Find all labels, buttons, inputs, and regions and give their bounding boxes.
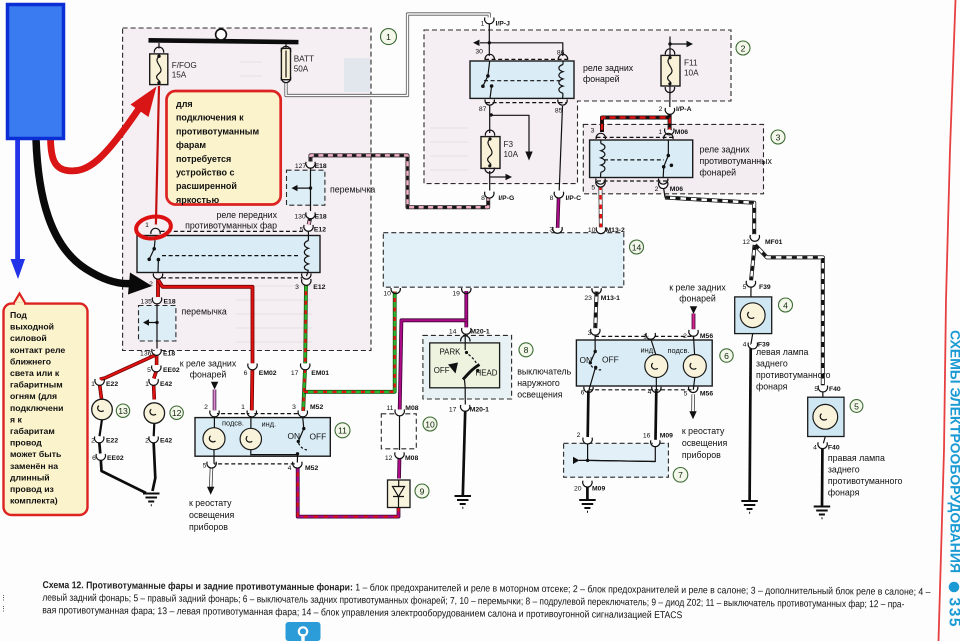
svg-text:2: 2 — [655, 186, 659, 193]
svg-text:контакт реле: контакт реле — [10, 345, 65, 355]
svg-text:фонарей: фонарей — [583, 74, 620, 84]
svg-text:M06: M06 — [670, 186, 683, 193]
svg-text:F39: F39 — [759, 284, 771, 291]
svg-text:10: 10 — [383, 291, 391, 298]
svg-text:5: 5 — [203, 463, 207, 470]
svg-text:EE02: EE02 — [107, 455, 124, 462]
svg-text:5: 5 — [743, 284, 747, 291]
svg-text:30: 30 — [475, 49, 483, 56]
svg-text:может быть: может быть — [10, 449, 61, 459]
svg-text:MF01: MF01 — [765, 239, 783, 246]
svg-text:длинный: длинный — [10, 472, 50, 482]
svg-text:M08: M08 — [405, 455, 418, 462]
svg-text:ближнего: ближнего — [10, 356, 51, 366]
svg-text:M52: M52 — [305, 465, 318, 472]
svg-text:яркостью: яркостью — [176, 195, 219, 205]
svg-text:11: 11 — [386, 405, 393, 412]
svg-text:EE02: EE02 — [163, 367, 180, 374]
svg-text:1: 1 — [241, 404, 245, 411]
svg-text:M56: M56 — [700, 333, 713, 340]
svg-text:EM01: EM01 — [311, 370, 329, 377]
svg-text:E12: E12 — [313, 284, 325, 291]
svg-text:габаритам: габаритам — [10, 426, 55, 436]
svg-text:СХЕМЫ ЭЛЕКТРООБОРУДОВАНИЯ: СХЕМЫ ЭЛЕКТРООБОРУДОВАНИЯ — [948, 330, 960, 573]
svg-text:12: 12 — [172, 408, 182, 418]
svg-text:1: 1 — [481, 21, 485, 28]
svg-text:инд.: инд. — [262, 419, 277, 428]
svg-text:комплекта): комплекта) — [10, 496, 58, 506]
svg-text:PARK: PARK — [440, 348, 462, 357]
svg-text:подсв.: подсв. — [222, 419, 244, 428]
svg-text:к реле задних: к реле задних — [669, 283, 726, 293]
svg-text:я к: я к — [10, 414, 22, 424]
svg-text:E18: E18 — [315, 163, 327, 170]
svg-text:фарам: фарам — [176, 140, 206, 150]
svg-text:1: 1 — [91, 381, 95, 388]
svg-text:противотуманных: противотуманных — [700, 156, 773, 166]
svg-text:OFF: OFF — [310, 432, 327, 442]
svg-text:13: 13 — [118, 406, 128, 416]
svg-text:3: 3 — [549, 227, 553, 234]
svg-text:4: 4 — [783, 300, 788, 310]
svg-text:16: 16 — [643, 433, 651, 440]
svg-text:127: 127 — [295, 163, 307, 170]
svg-text:11: 11 — [338, 426, 347, 436]
svg-text:противотуманным: противотуманным — [176, 126, 259, 136]
svg-text:заднего: заднего — [828, 465, 860, 475]
svg-text:I/P-J: I/P-J — [496, 21, 511, 28]
svg-text:5: 5 — [591, 184, 595, 191]
svg-text:86: 86 — [557, 50, 565, 57]
svg-text:M09: M09 — [660, 433, 673, 440]
svg-text:2: 2 — [149, 281, 153, 288]
svg-text:E42: E42 — [160, 438, 172, 445]
svg-text:85: 85 — [555, 108, 563, 115]
svg-text:50A: 50A — [294, 65, 309, 74]
svg-text:3: 3 — [591, 127, 595, 134]
svg-text:4: 4 — [813, 444, 817, 451]
svg-text:заднего: заднего — [756, 359, 788, 369]
svg-text:E18: E18 — [164, 299, 176, 306]
svg-text:F40: F40 — [828, 444, 840, 451]
svg-text:1: 1 — [145, 381, 149, 388]
svg-text:инд.: инд. — [641, 345, 656, 354]
svg-text:света или к: света или к — [10, 368, 60, 378]
svg-text:8: 8 — [481, 195, 485, 202]
svg-text:⋮: ⋮ — [0, 606, 7, 613]
svg-text:3: 3 — [295, 284, 299, 291]
svg-text:7: 7 — [678, 470, 683, 480]
svg-text:23: 23 — [584, 295, 592, 302]
svg-text:E12: E12 — [314, 226, 326, 233]
svg-text:M08: M08 — [405, 405, 418, 412]
svg-text:2: 2 — [91, 438, 95, 445]
svg-text:освещения: освещения — [189, 510, 235, 520]
svg-text:M52: M52 — [310, 404, 323, 411]
svg-text:4: 4 — [288, 465, 292, 472]
svg-text:M20-1: M20-1 — [470, 328, 489, 335]
svg-text:E42: E42 — [160, 381, 172, 388]
svg-text:5: 5 — [854, 401, 859, 411]
svg-text:I/P-G: I/P-G — [498, 195, 514, 202]
svg-text:фонарей: фонарей — [679, 294, 716, 304]
svg-text:19: 19 — [452, 291, 460, 298]
svg-text:12: 12 — [385, 455, 393, 462]
svg-text:правая лампа: правая лампа — [828, 453, 885, 463]
svg-text:14: 14 — [449, 328, 457, 335]
svg-text:⋮: ⋮ — [0, 595, 7, 602]
svg-text:6: 6 — [724, 351, 729, 361]
svg-text:M09: M09 — [592, 485, 605, 492]
svg-text:2: 2 — [683, 333, 687, 340]
svg-text:расширенной: расширенной — [176, 181, 237, 191]
svg-text:130: 130 — [294, 213, 306, 220]
svg-text:противотуманных фар: противотуманных фар — [185, 221, 277, 231]
svg-text:выходной: выходной — [10, 322, 54, 332]
svg-text:заменён на: заменён на — [10, 461, 58, 471]
svg-text:M20-1: M20-1 — [470, 406, 489, 413]
svg-text:5: 5 — [300, 226, 304, 233]
svg-text:2: 2 — [145, 438, 149, 445]
svg-text:перемычка: перемычка — [330, 185, 375, 195]
svg-text:3: 3 — [776, 132, 781, 142]
svg-text:M13-2: M13-2 — [606, 227, 625, 234]
svg-text:к реле задних: к реле задних — [180, 359, 237, 369]
svg-text:5: 5 — [147, 367, 151, 374]
svg-text:HEAD: HEAD — [476, 369, 498, 378]
svg-text:OFF: OFF — [602, 355, 619, 365]
svg-text:335: 335 — [946, 598, 960, 628]
svg-text:ON: ON — [288, 431, 301, 441]
svg-text:6: 6 — [92, 455, 96, 462]
svg-text:1: 1 — [145, 222, 149, 229]
svg-text:10: 10 — [425, 419, 435, 429]
svg-text:реле передних: реле передних — [216, 210, 277, 220]
svg-text:подсв.: подсв. — [668, 346, 690, 355]
svg-text:15A: 15A — [172, 71, 187, 80]
svg-text:E22: E22 — [106, 381, 118, 388]
svg-text:2: 2 — [577, 432, 581, 439]
svg-text:M13-1: M13-1 — [601, 295, 620, 302]
svg-text:17: 17 — [449, 406, 457, 413]
svg-text:провод из: провод из — [10, 484, 55, 494]
svg-text:3: 3 — [588, 330, 592, 337]
svg-text:фонаря: фонаря — [756, 382, 788, 392]
svg-text:I/P-C: I/P-C — [566, 195, 582, 202]
svg-text:реле задних: реле задних — [583, 63, 634, 73]
svg-text:потребуется: потребуется — [176, 154, 231, 164]
svg-text:1: 1 — [386, 32, 391, 42]
svg-text:к реостату: к реостату — [189, 498, 232, 508]
svg-text:20: 20 — [574, 485, 582, 492]
svg-text:6: 6 — [581, 389, 585, 396]
svg-text:наружного: наружного — [517, 378, 560, 388]
svg-text:136: 136 — [140, 351, 152, 358]
svg-text:OFF: OFF — [434, 366, 450, 375]
svg-text:провод: провод — [10, 438, 42, 448]
svg-text:освещения: освещения — [517, 390, 563, 400]
svg-text:87: 87 — [479, 106, 487, 113]
svg-text:огням (для: огням (для — [10, 391, 57, 401]
svg-text:F3: F3 — [504, 140, 514, 149]
svg-text:I/P-A: I/P-A — [676, 106, 692, 113]
svg-text:фонаря: фонаря — [828, 488, 860, 498]
svg-text:E18: E18 — [315, 213, 327, 220]
svg-text:6: 6 — [244, 370, 248, 377]
svg-text:F11: F11 — [684, 59, 698, 68]
svg-text:5: 5 — [684, 390, 688, 397]
svg-text:подключени: подключени — [10, 403, 63, 413]
svg-text:3: 3 — [292, 404, 296, 411]
svg-text:10A: 10A — [504, 150, 519, 159]
svg-text:8: 8 — [550, 195, 554, 202]
svg-text:14: 14 — [632, 242, 642, 252]
svg-text:10A: 10A — [684, 69, 699, 78]
svg-text:реле задних: реле задних — [700, 145, 751, 155]
svg-text:ON: ON — [580, 355, 593, 365]
svg-text:габаритным: габаритным — [10, 380, 63, 390]
svg-text:BATT: BATT — [294, 55, 314, 64]
svg-text:M06: M06 — [675, 129, 688, 136]
svg-text:к реостату: к реостату — [682, 426, 725, 436]
svg-text:5: 5 — [814, 386, 818, 393]
svg-text:F/FOG: F/FOG — [172, 61, 197, 70]
svg-text:2: 2 — [741, 43, 746, 53]
svg-text:противотуманного: противотуманного — [828, 476, 903, 486]
svg-text:фонарей: фонарей — [700, 168, 737, 178]
svg-text:для: для — [176, 99, 193, 109]
svg-text:10: 10 — [588, 227, 596, 234]
svg-text:F40: F40 — [829, 386, 841, 393]
svg-text:4: 4 — [648, 389, 652, 396]
svg-text:приборов: приборов — [682, 450, 721, 460]
svg-text:2: 2 — [204, 404, 208, 411]
svg-text:E18: E18 — [163, 351, 175, 358]
svg-text:подключения к: подключения к — [176, 113, 244, 123]
svg-text:Под: Под — [10, 310, 27, 320]
svg-text:1: 1 — [643, 334, 647, 341]
svg-text:2: 2 — [659, 106, 663, 113]
svg-text:выключатель: выключатель — [517, 367, 571, 377]
svg-text:1: 1 — [658, 129, 662, 136]
svg-text:17: 17 — [291, 370, 299, 377]
svg-text:устройство с: устройство с — [176, 168, 235, 178]
svg-text:9: 9 — [420, 486, 425, 496]
svg-text:перемычка: перемычка — [182, 307, 227, 317]
svg-text:M56: M56 — [700, 390, 713, 397]
svg-text:противотуманного: противотуманного — [756, 370, 831, 380]
svg-text:4: 4 — [743, 341, 747, 348]
svg-text:12: 12 — [742, 239, 750, 246]
svg-text:EM02: EM02 — [259, 370, 277, 377]
svg-text:приборов: приборов — [189, 522, 228, 532]
svg-text:8: 8 — [524, 345, 529, 355]
svg-text:силовой: силовой — [10, 333, 47, 343]
svg-text:135: 135 — [141, 299, 153, 306]
svg-text:E22: E22 — [106, 438, 118, 445]
svg-text:освещения: освещения — [682, 438, 728, 448]
svg-text:фонарей: фонарей — [190, 370, 227, 380]
svg-text:левая лампа: левая лампа — [756, 347, 809, 357]
